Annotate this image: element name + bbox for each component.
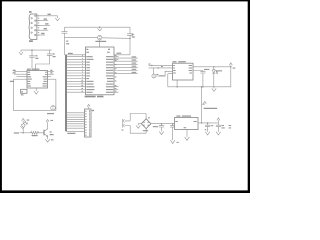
ground (U4): [185, 130, 190, 141]
capacitor C7: [153, 124, 164, 132]
wire U1 right pin3: [48, 76, 52, 78]
wire U3 ground rail: [168, 67, 231, 87]
LED D2: [20, 122, 27, 133]
crystal Y3 32.768K: [152, 68, 173, 78]
node label P3.7: [14, 132, 31, 134]
wire MCU bundle CE: [114, 66, 138, 68]
bridge rectifier D1: [141, 114, 151, 134]
wires bus to header: [66, 113, 85, 132]
capacitor C10 electrolytic: [216, 123, 231, 132]
wire U1 left pin4 loop: [10, 79, 27, 82]
capacitor C3 (box): [21, 89, 27, 95]
wires MCU right pin stubs: [114, 57, 119, 93]
regulator U4 7805: [175, 115, 199, 129]
wire U3 VCC right: [193, 66, 232, 68]
ground (bridge minus): [136, 124, 141, 129]
wire MCU bundle CLK: [114, 59, 138, 61]
capacitor C4 30pF left: [62, 27, 70, 44]
wire U3 bottom pin: [176, 80, 178, 88]
wire MCU bundle RST: [114, 56, 138, 58]
ground (C9): [205, 132, 209, 135]
wire DB9 pin3 TXD: [36, 23, 50, 25]
ground (RTC rail): [212, 87, 216, 92]
connector P1 DB9 serial: [29, 11, 39, 42]
ground (below U1): [34, 88, 38, 94]
wire jack to bridge: [130, 114, 146, 134]
power VCC (Q1 collector): [46, 120, 53, 122]
wire crystal to MCU top pin: [99, 40, 101, 47]
IC U1 MAX232: [27, 69, 48, 88]
wires MCU left pins to bus: [67, 55, 86, 92]
transistor Q1 9013: [44, 122, 54, 140]
capacitor C9: [205, 123, 214, 132]
LED D3: [212, 67, 222, 87]
wire MCU bundle IO: [114, 63, 138, 65]
capacitor C6: [193, 69, 209, 88]
wire U3 GND pin down: [168, 74, 173, 87]
wire left crystal drop to XTAL2: [65, 38, 86, 55]
resistor R1: [31, 131, 45, 136]
wire output rail: [198, 122, 218, 124]
RTC U3 DS1302: [173, 61, 194, 80]
capacitor C1 10uF: [29, 50, 38, 70]
MCU right pin names: [106, 56, 113, 93]
border frame: [0, 0, 250, 193]
wire DB9 pin4 DTR: [36, 28, 48, 30]
capacitor C2 10uF: [36, 50, 56, 70]
wire XTAL rail: [65, 37, 131, 40]
MCU left pin names: [86, 56, 94, 93]
ground (MAX232 rail): [19, 50, 23, 55]
wire U1 left pin1: [13, 70, 27, 72]
buzzer LS1 on loop: [47, 106, 55, 115]
ground (C8): [171, 140, 179, 143]
ground (C10): [216, 132, 220, 135]
header J1 CON10: [85, 109, 95, 137]
wire MCU bundle INT: [114, 69, 138, 71]
wire U1 right pin2: [48, 72, 55, 74]
power VCC (LED branch): [22, 119, 30, 125]
capacitor C5 30pF right: [127, 27, 135, 39]
capacitor C8 electrolytic: [170, 124, 178, 141]
bus line: [66, 55, 75, 134]
connector J2 power jack: [122, 119, 131, 131]
wire U3 pin1: [149, 64, 173, 67]
wire VCC rail above MAX232: [21, 49, 52, 51]
wire DB9 pin1 to GND: [36, 14, 58, 16]
crystal Y1: [95, 35, 106, 42]
power VCC (U3): [229, 63, 235, 69]
power VCC (header pin1): [87, 104, 90, 109]
wire ground rail of crystal loop: [65, 26, 131, 28]
wire U3 pin2: [149, 66, 173, 69]
wire loop around bottom: [13, 79, 56, 110]
power arrow (+5V branch): [217, 118, 220, 123]
ground (DB9 pin5): [55, 16, 59, 21]
wire U1 left pin2: [13, 72, 27, 74]
power VCC (+5V supply): [203, 101, 217, 109]
wire MCU bundle LED: [114, 72, 138, 74]
wire DB9 pin2 RXD: [36, 18, 48, 20]
wire VCC riser: [201, 86, 205, 123]
ground (C7): [159, 131, 163, 134]
MCU U2 AT89S52: [85, 47, 114, 97]
ground (crystal rail): [98, 26, 102, 30]
wire U1 right pin4 loop: [48, 78, 56, 80]
wire U1 left pin3: [17, 76, 28, 78]
wire bridge plus to regulator: [151, 123, 175, 125]
wire right crystal drop to XTAL1: [114, 38, 130, 55]
wire U1 right pin1: [48, 70, 55, 72]
MCU right pin numbers: [115, 55, 117, 92]
ground (Q1 emitter): [45, 139, 53, 142]
wire DB9 pin5: [36, 33, 45, 35]
